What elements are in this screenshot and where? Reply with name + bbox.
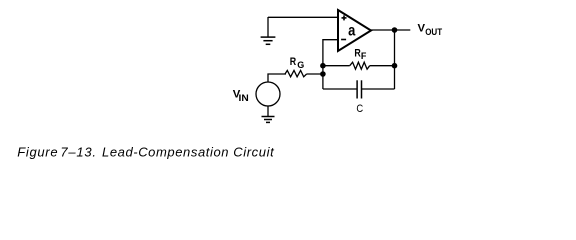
svg-text:R: R: [290, 56, 296, 68]
svg-text:OUT: OUT: [425, 27, 442, 37]
wire (inverting input branch): [323, 40, 338, 89]
svg-text:R: R: [354, 47, 360, 59]
svg-text:IN: IN: [239, 93, 249, 103]
node (RG junction at inverting input): [320, 71, 326, 77]
wire (VIN to ground): [267, 106, 269, 117]
svg-text:C: C: [356, 103, 363, 115]
node (output junction): [392, 27, 398, 33]
op-amp a: [338, 10, 371, 51]
node (RF junction at inverting input): [320, 63, 326, 69]
resistor RG: [285, 56, 323, 77]
wire (feedback right vertical): [394, 30, 396, 89]
svg-text:Figure7–13.Lead-Compensation C: Figure7–13.Lead-Compensation Circuit: [17, 145, 275, 160]
svg-text:a: a: [348, 23, 355, 40]
capacitor C: [323, 80, 395, 115]
ground (below VIN): [262, 117, 275, 123]
wire (VIN to RG): [268, 74, 286, 82]
source VIN: [233, 82, 280, 106]
resistor RF: [323, 47, 395, 69]
svg-text:F: F: [361, 51, 367, 61]
ground (non-inverting input): [261, 17, 276, 44]
wire (ground to + input): [268, 16, 338, 18]
node (RF right junction): [392, 63, 398, 69]
wire (op-amp output): [371, 29, 410, 31]
label VOUT: [418, 23, 443, 37]
svg-text:G: G: [297, 60, 304, 70]
